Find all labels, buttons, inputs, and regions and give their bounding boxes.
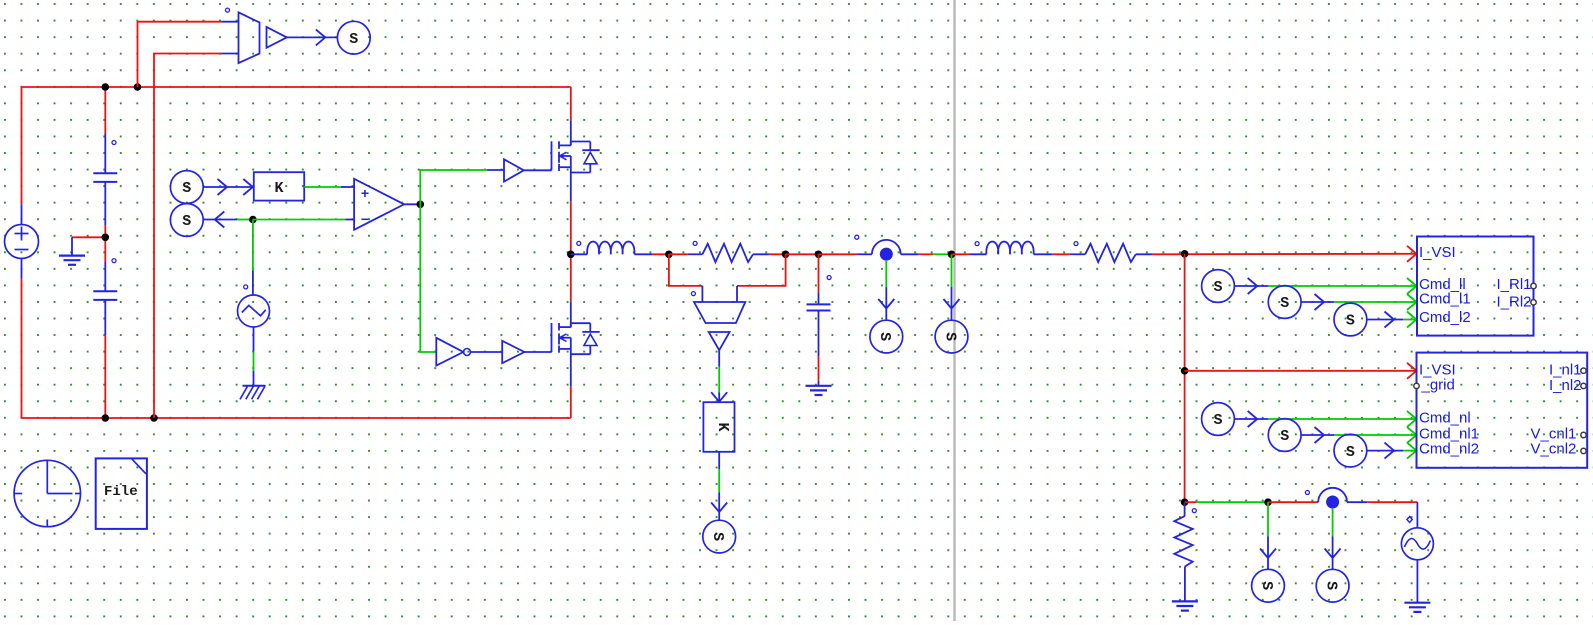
- wire - cap branch lower: [104, 335, 106, 418]
- svg-text:S: S: [1322, 581, 1339, 590]
- marker C2: [112, 259, 116, 263]
- wire - S feedback: [203, 212, 253, 228]
- svg-text:S: S: [1346, 444, 1355, 461]
- marker R2: [1074, 242, 1078, 246]
- wire - to probe Vdc: [287, 29, 338, 45]
- wire: [1301, 294, 1334, 310]
- wire - to probe: [1260, 502, 1276, 569]
- wire: [1301, 427, 1334, 443]
- svg-text:V_cnl2: V_cnl2: [1531, 441, 1577, 458]
- wire - cap branch upper: [104, 87, 106, 173]
- inductor L2: [986, 242, 1033, 255]
- buffer U1: [267, 27, 287, 48]
- svg-text:K: K: [274, 180, 283, 197]
- marker ISEN1: [855, 235, 859, 239]
- wire - PWM to top gate buffer: [420, 170, 504, 204]
- marker L1: [577, 241, 581, 245]
- wire - left source branch: [21, 87, 23, 418]
- current probe S (grid): [1316, 569, 1349, 602]
- wire - carrier to earth: [253, 327, 255, 385]
- command probe S (Cmd_nl2): [1334, 434, 1367, 467]
- sensor probe S (current ref): [170, 171, 203, 204]
- svg-text:+: +: [361, 185, 369, 201]
- marker AC source: [1407, 517, 1412, 523]
- wire - AC to ground: [1416, 560, 1418, 602]
- wire - C3 bottom: [818, 311, 820, 386]
- wire - bus- to sensor: [154, 54, 239, 419]
- AC grid source VAC: [1401, 528, 1433, 560]
- wire - gain to probe: [711, 452, 727, 520]
- svg-text:S: S: [1280, 295, 1289, 312]
- wire: [952, 253, 987, 255]
- ground - DC midpoint: [59, 256, 85, 265]
- wire - right vertical bus: [1184, 254, 1186, 502]
- triangular carrier source VTRI: [238, 295, 270, 327]
- wire - to comparator -: [253, 219, 354, 221]
- wire: [786, 253, 819, 255]
- wire - cap midpoint: [104, 225, 106, 262]
- svg-text:S: S: [1258, 581, 1275, 590]
- junction: [150, 414, 158, 422]
- junction: [1181, 250, 1189, 258]
- svg-text:Cmd_l1: Cmd_l1: [1419, 291, 1471, 308]
- buffer U5 (bottom gate): [502, 341, 524, 363]
- wire: [1367, 443, 1404, 459]
- svg-text:I_VSI: I_VSI: [1419, 244, 1456, 261]
- svg-text:S: S: [1280, 428, 1289, 445]
- wire - to I_VSI: [1136, 246, 1417, 262]
- junction: [102, 83, 110, 91]
- ground - earth (carrier): [240, 386, 266, 400]
- junction: [1181, 367, 1189, 375]
- wire - C3 top: [818, 254, 820, 304]
- sensor probe S (feedback): [170, 204, 203, 237]
- junction - phase node: [567, 251, 575, 259]
- wire - ISEN1 to probe: [878, 261, 894, 321]
- wire - S to gain K: [203, 179, 254, 195]
- wire: [901, 253, 952, 255]
- resistor R1: [702, 244, 753, 262]
- buffer U3 (top gate): [504, 159, 524, 181]
- junction: [1181, 498, 1189, 506]
- marker carrier source: [244, 285, 248, 289]
- wire: [1185, 501, 1268, 503]
- svg-text:S: S: [182, 180, 191, 197]
- MOSFET Q2 (bottom): [552, 323, 600, 354]
- wire - midpoint ground stub: [72, 237, 105, 255]
- svg-text:S: S: [941, 332, 958, 341]
- wire - sensor to gain: [711, 350, 727, 402]
- svg-text:−: −: [361, 211, 369, 227]
- marker R1: [693, 241, 697, 245]
- svg-text:Cmd_nl: Cmd_nl: [1419, 409, 1471, 426]
- marker R3: [1192, 509, 1196, 513]
- subcircuit block VSI-2: [1414, 353, 1587, 468]
- junction: [1264, 498, 1272, 506]
- wire: [819, 253, 872, 255]
- marker C3: [827, 276, 831, 280]
- marker C1: [112, 141, 116, 145]
- marker ISEN2: [1305, 491, 1309, 495]
- junction: [417, 201, 425, 209]
- current sensor ISEN2: [1318, 488, 1347, 509]
- svg-text:S: S: [1346, 313, 1355, 330]
- svg-text:I_nl2: I_nl2: [1549, 377, 1582, 394]
- voltage sensor VS1 (DC bus): [239, 12, 260, 63]
- capacitor C2: [93, 262, 117, 335]
- svg-text:S: S: [1213, 279, 1222, 296]
- wire - to Q2 gate: [524, 351, 551, 353]
- wire - sensor tap left: [669, 254, 703, 302]
- marker VS2: [691, 292, 695, 296]
- wire: [1184, 502, 1186, 516]
- command probe S (Cmd_nl1): [1268, 419, 1301, 452]
- junction: [665, 251, 673, 259]
- wire - sensor tap right: [737, 254, 786, 302]
- wire - bus+ to sensor: [138, 22, 239, 87]
- wire - bus to Q1 drain: [570, 87, 572, 145]
- MOSFET Q1 (top): [552, 141, 600, 172]
- wire: [1347, 501, 1417, 503]
- svg-text:S: S: [876, 332, 893, 341]
- wire - Cmd_ll: [1268, 278, 1416, 294]
- svg-text:Cmd_nl2: Cmd_nl2: [1419, 441, 1479, 458]
- svg-text:_grid: _grid: [1421, 377, 1455, 394]
- voltage probe S (Vdc): [337, 21, 370, 54]
- ground - AC source: [1404, 603, 1430, 612]
- resistor R3 (load): [1174, 516, 1192, 567]
- resistor R2: [1085, 244, 1136, 262]
- parameter file element: [96, 458, 147, 529]
- voltage probe S (Vload): [703, 520, 736, 553]
- command probe S (Cmd_l1): [1268, 286, 1301, 319]
- command probe S (Cmd_ll): [1202, 270, 1235, 303]
- svg-text:I_Rl2: I_Rl2: [1497, 293, 1532, 310]
- wire - top DC bus: [22, 86, 571, 88]
- voltage probe S (vo): [935, 320, 968, 353]
- marker VS1: [226, 8, 230, 12]
- wire - comparator out: [404, 203, 420, 205]
- current sensor ISEN1: [872, 240, 901, 261]
- wire: [669, 253, 703, 255]
- wire - carrier to node: [252, 220, 254, 296]
- wire - Q2 source to bus: [570, 354, 572, 418]
- marker L2: [975, 242, 979, 246]
- wire: [753, 253, 786, 255]
- svg-text:S: S: [182, 213, 191, 230]
- svg-text:Cmd_l2: Cmd_l2: [1419, 309, 1471, 326]
- svg-text:S: S: [1213, 412, 1222, 429]
- capacitor C3: [807, 304, 831, 310]
- wire - node to probe: [944, 254, 960, 320]
- svg-text:I_Rl1: I_Rl1: [1497, 276, 1532, 293]
- wire - to AC source: [1416, 502, 1418, 528]
- inverter U4: [436, 338, 470, 366]
- command probe S (Cmd_l2): [1334, 303, 1367, 336]
- buffer U6 (sensor out): [709, 332, 730, 350]
- wire - bottom DC bus: [22, 417, 571, 419]
- wire: [1367, 312, 1404, 328]
- voltage sensor VS2 (load): [694, 302, 745, 323]
- subcircuit block VSI-1: [1417, 237, 1536, 336]
- junction: [948, 251, 956, 259]
- comparator U2: [354, 179, 404, 230]
- wire - to Q1 gate: [524, 169, 552, 171]
- junction: [102, 414, 110, 422]
- current probe S (iL): [870, 320, 903, 353]
- wire - to VSI block 2: [1185, 363, 1417, 379]
- gain block K2: [703, 402, 734, 452]
- simulation clock icon: [14, 460, 80, 526]
- wire - midpoint to Q2 drain: [570, 254, 572, 327]
- wire - inverter to buffer: [471, 351, 503, 353]
- wire - Cmd_nl: [1268, 411, 1416, 427]
- inductor L1: [587, 242, 634, 255]
- wire - Cmd_l1: [1334, 294, 1416, 310]
- wire - Cmd_nl2: [1403, 443, 1416, 459]
- junction: [102, 234, 110, 242]
- junction: [782, 251, 790, 259]
- wire - Cmd_nl1: [1334, 427, 1416, 443]
- junction: [815, 251, 823, 259]
- wire - PWM to inverter: [420, 204, 436, 352]
- wire: [1234, 411, 1268, 427]
- wire - Cmd_l2: [1403, 312, 1416, 328]
- svg-text:K: K: [714, 422, 731, 431]
- wire: [1234, 278, 1268, 294]
- svg-text:S: S: [709, 532, 726, 541]
- wire - to probe: [1325, 509, 1341, 570]
- wire - Q1 source to midpoint: [570, 173, 572, 255]
- wire: [634, 253, 669, 255]
- gain block K1: [254, 172, 304, 200]
- wire: [1034, 253, 1086, 255]
- wire - K to comparator +: [304, 186, 354, 188]
- wire: [1184, 567, 1186, 601]
- capacitor C1: [93, 173, 117, 225]
- junction: [134, 83, 142, 91]
- sheet boundary line: [953, 0, 955, 621]
- junction: [249, 216, 257, 224]
- DC voltage source VDC1: [5, 225, 39, 259]
- ground - R3: [1172, 601, 1198, 610]
- ground - C3: [806, 386, 832, 395]
- svg-text:File: File: [104, 484, 138, 500]
- command probe S (Cmd_nl): [1202, 403, 1235, 436]
- wire: [1268, 501, 1318, 503]
- voltage probe S (grid): [1252, 569, 1285, 602]
- wire: [571, 253, 587, 255]
- svg-text:S: S: [349, 31, 358, 48]
